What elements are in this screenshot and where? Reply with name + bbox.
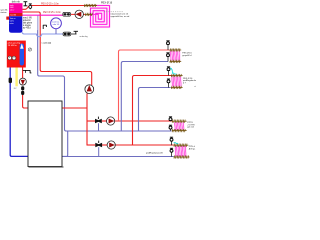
svg-text:PEX Ø 25 x 10m: PEX Ø 25 x 10m <box>43 11 61 14</box>
svg-text:anderlag: anderlag <box>80 35 89 38</box>
svg-text:500l: 500l <box>10 7 14 9</box>
svg-text:+VI TRI: +VI TRI <box>187 124 195 126</box>
svg-text:vde 55: vde 55 <box>53 24 60 26</box>
svg-text:PEX Ø 16: PEX Ø 16 <box>183 78 193 80</box>
svg-text:PEX Ø 16: PEX Ø 16 <box>182 53 192 55</box>
svg-text:> CH KB: > CH KB <box>41 42 51 45</box>
svg-text:d ?: d ? <box>183 83 187 85</box>
svg-text:specifik: specifik <box>0 10 8 12</box>
svg-text:deb mb: deb mb <box>12 1 21 4</box>
svg-text:PEX Ø 16: PEX Ø 16 <box>101 1 113 4</box>
svg-text:med. NV: med. NV <box>23 17 32 19</box>
svg-text:28 kW lin: 28 kW lin <box>8 45 18 47</box>
svg-text:pfan gasving: pfan gasving <box>8 42 21 44</box>
svg-text:st: st <box>194 85 196 88</box>
svg-text:PPTU: PPTU <box>187 122 193 124</box>
svg-text:ack v: ack v <box>10 9 14 11</box>
svg-text:lab gives: lab gives <box>23 23 33 25</box>
svg-text:kall s: kall s <box>10 21 14 23</box>
svg-text:råkanvänd rum ett: råkanvänd rum ett <box>111 13 129 16</box>
svg-text:pedRegdanku: pedRegdanku <box>183 80 197 82</box>
svg-text:KV: KV <box>14 88 17 90</box>
svg-text:med 60: med 60 <box>10 14 16 16</box>
svg-text:pedRepdataLorB: pedRepdataLorB <box>146 151 163 154</box>
svg-text:PEX Ø 25 x 10m: PEX Ø 25 x 10m <box>41 2 59 5</box>
svg-text:PPU d: PPU d <box>189 146 196 148</box>
